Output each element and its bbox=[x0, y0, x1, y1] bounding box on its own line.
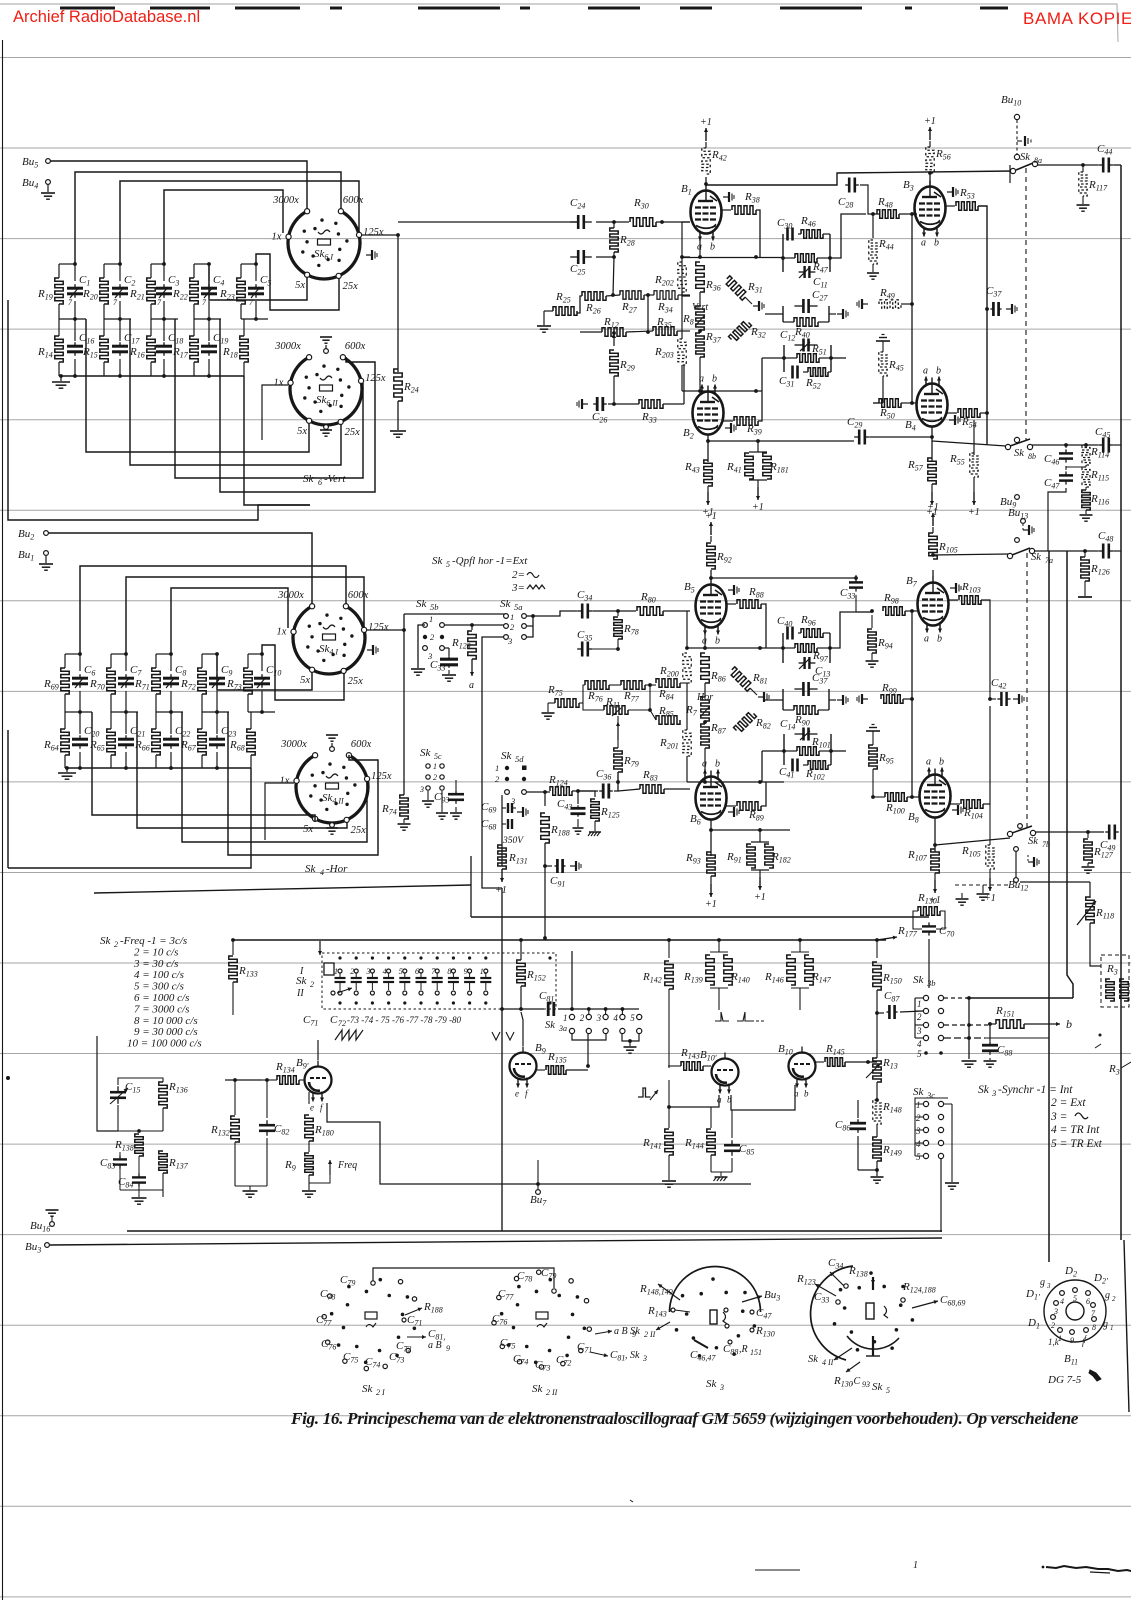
wire R31 to glyph bbox=[745, 297, 752, 304]
capacitor C49 bbox=[1105, 831, 1109, 833]
wire B8 anode to SK7b bbox=[935, 838, 1010, 845]
resistor R7 bbox=[701, 697, 709, 721]
svg-text:3: 3 bbox=[991, 1088, 996, 1098]
resistor R39 bbox=[723, 420, 733, 422]
resistor R102 bbox=[808, 761, 828, 769]
resistor R97 bbox=[795, 644, 817, 652]
resistor R22 bbox=[190, 278, 198, 304]
svg-text:600x: 600x bbox=[348, 590, 369, 601]
switch SK2 dashed box bbox=[322, 953, 556, 1009]
node bus under B2 bbox=[681, 365, 683, 391]
svg-text:Sk: Sk bbox=[1014, 448, 1024, 459]
svg-text:a: a bbox=[702, 759, 707, 770]
svg-text:3a: 3a bbox=[558, 1024, 567, 1033]
left page border line bbox=[2, 40, 4, 1600]
svg-text:5x: 5x bbox=[303, 824, 313, 835]
ground top right of bus bbox=[961, 893, 963, 898]
svg-text:2: 2 bbox=[350, 967, 354, 976]
svg-text:1x: 1x bbox=[274, 378, 284, 389]
svg-text:1: 1 bbox=[917, 999, 922, 1009]
wire B5 anode bus bbox=[711, 577, 790, 579]
wires SK5b bracket bbox=[418, 625, 425, 668]
wire right box bbox=[1110, 1001, 1121, 1020]
resistor R152 bbox=[520, 940, 522, 960]
svg-text:25x: 25x bbox=[348, 676, 364, 687]
+1 R55 bbox=[973, 492, 975, 505]
wires R75 row bbox=[579, 702, 583, 704]
wire SK5a row2 to SK5b bbox=[444, 624, 504, 626]
top edge dark dashes bbox=[60, 7, 115, 10]
svg-text:3000x: 3000x bbox=[272, 195, 299, 206]
svg-text:Sk: Sk bbox=[913, 1086, 925, 1098]
svg-text:8a: 8a bbox=[1034, 156, 1042, 165]
svg-text:a: a bbox=[921, 238, 926, 249]
svg-text:93: 93 bbox=[862, 1380, 870, 1389]
triode B10 bbox=[789, 1053, 816, 1080]
resistor R118 variable bbox=[1020, 881, 1090, 883]
wire SK8a to C44 bbox=[1037, 164, 1098, 166]
svg-text:3: 3 bbox=[916, 1026, 922, 1036]
wire C24 to R30 bbox=[596, 221, 629, 223]
wire R123 to a bbox=[471, 659, 473, 676]
connector SK2-I bbox=[413, 1326, 417, 1330]
dashes SK3b rows bbox=[944, 997, 966, 999]
svg-text:9: 9 bbox=[446, 1344, 450, 1353]
svg-text:1x: 1x bbox=[272, 232, 282, 243]
svg-text:Sk: Sk bbox=[501, 750, 513, 762]
capacitor C16 bbox=[74, 342, 76, 346]
svg-text:125x: 125x bbox=[363, 227, 384, 238]
resistor R89 bbox=[726, 805, 736, 807]
svg-text:DG 7-5: DG 7-5 bbox=[1047, 1374, 1082, 1386]
resistor R76 bbox=[585, 681, 609, 689]
capacitor C2 bbox=[119, 284, 121, 288]
wire ladder3 cell bus bbox=[202, 711, 229, 713]
wire B2 anode to C29 bbox=[708, 440, 854, 442]
resistor R44 bbox=[872, 214, 874, 238]
capacitor C47 bbox=[1065, 466, 1067, 470]
ground R74 bbox=[403, 819, 405, 823]
connector DG 7-5 bbox=[1044, 1280, 1106, 1342]
resistor R116 bbox=[1082, 490, 1090, 510]
svg-text:7 = 3000 c/s: 7 = 3000 c/s bbox=[134, 1003, 189, 1015]
resistor R23 bbox=[237, 278, 245, 304]
svg-text:7b: 7b bbox=[1042, 840, 1050, 849]
+1 feed B1 bbox=[705, 142, 707, 148]
capacitor C40 bbox=[787, 632, 788, 634]
capacitor C3 bbox=[163, 284, 165, 288]
svg-text:5: 5 bbox=[399, 967, 403, 976]
resistor R115 bbox=[1082, 467, 1090, 487]
resistor R105b bbox=[989, 804, 991, 845]
resistor R12 bbox=[602, 328, 626, 336]
resistor R88 bbox=[726, 603, 736, 605]
resistor R35 bbox=[653, 327, 677, 335]
glyph B8 bbox=[952, 809, 958, 811]
resistor R37 bbox=[696, 333, 704, 357]
capacitor C8 bbox=[170, 674, 172, 678]
vertical bus x1067 bbox=[1067, 551, 1073, 998]
switch SK7b bbox=[1018, 824, 1023, 829]
wire C34 to R80 bbox=[593, 610, 636, 612]
capacitor C13 bbox=[799, 662, 805, 664]
wire B7 anode to SK7a bbox=[933, 548, 1006, 555]
wire C44 right to vertical bus bbox=[1114, 164, 1121, 166]
svg-text:5d: 5d bbox=[515, 754, 524, 764]
svg-text:1: 1 bbox=[433, 762, 437, 771]
svg-text:Sk: Sk bbox=[706, 1378, 718, 1390]
wire SK6-I output right bbox=[362, 234, 398, 236]
wire C28 to B3 grid bbox=[860, 185, 880, 214]
wire row4 right bbox=[985, 1037, 1049, 1039]
glyph at SK6-I right bbox=[366, 254, 372, 256]
+1 R41 bbox=[757, 487, 759, 500]
resistor R90 bbox=[794, 706, 818, 714]
wire bundle SK4-II bbox=[92, 712, 315, 822]
svg-text:Freq: Freq bbox=[337, 1160, 357, 1171]
svg-text:3 =: 3 = bbox=[1050, 1111, 1067, 1123]
resistor R201 (dashed) bbox=[683, 730, 691, 756]
tube B3 bbox=[915, 187, 946, 230]
svg-text:b: b bbox=[939, 757, 944, 768]
resistor R33 bbox=[608, 403, 639, 405]
svg-text:3: 3 bbox=[365, 967, 370, 976]
resistor pair R139 R140 bbox=[718, 940, 720, 952]
resistor R95 bbox=[866, 730, 880, 732]
wire R25 to R26 corner bbox=[577, 296, 582, 313]
capacitor C31 bbox=[792, 371, 793, 373]
svg-text:3: 3 bbox=[719, 1383, 724, 1392]
capacitor C18 bbox=[163, 342, 165, 346]
capacitor C88 bbox=[989, 1024, 991, 1041]
resistor R148 bbox=[873, 1100, 881, 1124]
resistor R86 bbox=[701, 653, 709, 683]
svg-text:3=: 3= bbox=[511, 582, 525, 594]
resistor R28 bbox=[613, 252, 615, 257]
+1 R57 bbox=[931, 492, 933, 505]
ground R24 bbox=[397, 401, 399, 430]
svg-text:+1: +1 bbox=[754, 892, 766, 903]
resistor R27 bbox=[620, 291, 644, 299]
+1 R131 bbox=[501, 869, 503, 882]
wire B3 anode right bus bbox=[1009, 165, 1011, 183]
svg-text:2 = Ext: 2 = Ext bbox=[1051, 1097, 1086, 1109]
wire B7 top bbox=[932, 570, 934, 577]
svg-text:6: 6 bbox=[318, 478, 322, 487]
capacitor C29 bbox=[854, 436, 859, 438]
svg-text:8: 8 bbox=[1092, 1323, 1096, 1332]
resistor R203 (dashed) bbox=[678, 339, 686, 365]
capacitor C34 bbox=[577, 610, 582, 612]
svg-text:b: b bbox=[937, 634, 942, 645]
wire SK4-I 125x to rail bbox=[367, 629, 404, 631]
svg-text:3000x: 3000x bbox=[280, 739, 307, 750]
resistor R13 bbox=[873, 1058, 881, 1082]
resistor R47 bbox=[795, 254, 817, 262]
resistor R57 bbox=[928, 458, 936, 484]
resistor R65 bbox=[107, 729, 115, 755]
grounds SK5c bbox=[427, 791, 429, 800]
capacitor C14 bbox=[795, 733, 804, 735]
ground R132 C82 bbox=[235, 1185, 267, 1187]
ground R144 C85 bbox=[711, 1171, 732, 1173]
+1 R93 bbox=[710, 884, 712, 897]
resistor R105 top bbox=[932, 560, 934, 570]
svg-text:4 II: 4 II bbox=[822, 1358, 834, 1367]
wire B9' cathode to B9 line bbox=[327, 1103, 751, 1184]
wire B1 anode top bbox=[705, 177, 707, 185]
svg-text:1: 1 bbox=[913, 1560, 918, 1571]
wire SK3a to B10 grid bbox=[588, 1065, 668, 1067]
wire box1 right up to B3 grid bbox=[830, 214, 866, 258]
small rect SK2 left bbox=[324, 963, 334, 975]
dashed gnd under Bu12 bbox=[955, 884, 1010, 886]
resistor R142 bbox=[668, 940, 670, 958]
svg-text:a: a bbox=[926, 757, 931, 768]
resistor R94 bbox=[871, 615, 873, 628]
resistor R200 (dashed) bbox=[683, 653, 691, 683]
glyph B7 bbox=[950, 587, 956, 589]
resistor R143 bbox=[681, 1062, 703, 1070]
resistor pair R146 R147 bbox=[799, 940, 801, 952]
wire SK6-II 1x left bbox=[262, 385, 288, 440]
resistor R126 bbox=[1084, 551, 1086, 557]
wire ladder3 cell bus bbox=[65, 711, 92, 713]
svg-text:Sk: Sk bbox=[630, 1326, 640, 1337]
resistor R131 bbox=[498, 845, 506, 869]
svg-text:8b: 8b bbox=[1028, 452, 1036, 461]
wire SK3c bottom bbox=[940, 1159, 942, 1232]
capacitor C15 bbox=[117, 1086, 119, 1092]
connector SK2-II bbox=[583, 1326, 587, 1330]
vertical bus x1049 bbox=[1048, 551, 1050, 1262]
svg-text:b: b bbox=[712, 374, 717, 385]
svg-text:b: b bbox=[710, 242, 715, 253]
resistor R100 bbox=[885, 793, 907, 801]
svg-text:5: 5 bbox=[917, 1049, 922, 1059]
svg-text:Sk: Sk bbox=[420, 747, 432, 759]
svg-text:4 = TR Int: 4 = TR Int bbox=[1051, 1124, 1100, 1136]
capacitor C33b bbox=[855, 578, 857, 582]
glyph B4 bbox=[949, 419, 955, 421]
svg-text:6: 6 bbox=[1086, 1297, 1090, 1306]
arrow to b bbox=[1024, 1023, 1060, 1025]
wire C33b down to R94 bbox=[855, 595, 857, 612]
svg-text:b: b bbox=[936, 366, 941, 377]
svg-text:Sk: Sk bbox=[305, 863, 317, 875]
capacitor C25 bbox=[570, 256, 578, 258]
small marks right edge bbox=[1099, 1034, 1102, 1037]
+1 feed B5 bbox=[710, 536, 712, 542]
svg-text:3: 3 bbox=[915, 1126, 921, 1136]
capacitor C28 bbox=[845, 184, 849, 186]
+1 feed B3 bbox=[929, 141, 931, 147]
labels SK3 conn bbox=[658, 1284, 680, 1300]
capacitor C82 bbox=[266, 1080, 268, 1118]
glyph at SK4-I right bbox=[367, 649, 373, 651]
wire R104 right bbox=[983, 706, 990, 804]
svg-text:Sk: Sk bbox=[978, 1084, 990, 1096]
svg-text:6 = 1000 c/s: 6 = 1000 c/s bbox=[134, 992, 189, 1004]
resistor R93 bbox=[707, 852, 715, 876]
wire mid junction bbox=[681, 292, 683, 339]
svg-text:1: 1 bbox=[563, 1013, 568, 1023]
wave glyphs near B9 bbox=[492, 1032, 514, 1040]
svg-text:Sk: Sk bbox=[303, 473, 315, 485]
wire bundle SK6-II bbox=[86, 319, 309, 452]
resistor R144 bbox=[710, 1107, 712, 1128]
wire box2 left stub bbox=[765, 699, 783, 701]
capacitor to ground Bu10 bbox=[1017, 140, 1022, 142]
wire ladder1 bottom bus bbox=[59, 375, 244, 377]
svg-text:3b: 3b bbox=[926, 978, 936, 988]
svg-text:a: a bbox=[924, 634, 929, 645]
svg-text:b: b bbox=[934, 238, 939, 249]
capacitor C11 bbox=[799, 271, 805, 273]
svg-text:C: C bbox=[330, 1014, 338, 1026]
capacitor C22 bbox=[170, 735, 172, 739]
svg-text:-Qpfl hor -1=Ext: -Qpfl hor -1=Ext bbox=[452, 555, 528, 567]
capacitor C84 bbox=[138, 1173, 140, 1177]
svg-text:1,k: 1,k bbox=[1048, 1337, 1060, 1347]
resistor R135 bbox=[537, 1069, 545, 1071]
capacitor C85 bbox=[731, 1110, 733, 1138]
resistor pair R41 R181 bbox=[757, 441, 759, 452]
resistor R53 bbox=[945, 205, 955, 207]
capacitor C20 bbox=[79, 735, 81, 739]
coupling box3 top outline bbox=[783, 345, 785, 372]
block wires C15 top bbox=[118, 1078, 163, 1085]
wire grid row bbox=[606, 295, 620, 296]
capacitor C42 bbox=[989, 692, 991, 699]
wire B2 bottom bbox=[707, 435, 709, 462]
svg-text:+1: +1 bbox=[700, 117, 712, 128]
switch SK7a bbox=[1015, 538, 1020, 543]
svg-text:600x: 600x bbox=[345, 341, 366, 352]
+1 R107 bbox=[934, 880, 936, 893]
wire R144 top bbox=[669, 1106, 711, 1108]
svg-text:Sk: Sk bbox=[100, 935, 112, 947]
capacitor C87 bbox=[877, 1012, 884, 1014]
wire SK3b vertical to ground bbox=[968, 998, 970, 1059]
svg-text:Sk: Sk bbox=[1020, 152, 1030, 163]
resistor R137 bbox=[159, 1151, 167, 1173]
tube B4 bbox=[917, 384, 948, 427]
svg-text:2: 2 bbox=[1112, 1295, 1116, 1303]
svg-text:4: 4 bbox=[916, 1139, 921, 1149]
svg-text:3: 3 bbox=[507, 636, 512, 646]
wire long vertical x502 bbox=[501, 888, 503, 1231]
capacitor C69 bbox=[501, 795, 503, 866]
wire slanted long bus bbox=[94, 885, 471, 893]
svg-text:-73 -74 - 75 -76 -77 -78 -79 -: -73 -74 - 75 -76 -77 -78 -79 -80 bbox=[347, 1015, 461, 1025]
resistor R19 bbox=[55, 278, 63, 304]
svg-text:2 I: 2 I bbox=[376, 1388, 385, 1397]
svg-text:4: 4 bbox=[1060, 1297, 1064, 1306]
wire ladder4 bottom bus bbox=[65, 767, 251, 769]
top page border line bbox=[0, 4, 1118, 42]
resistor R24 bbox=[397, 236, 399, 372]
svg-text:1: 1 bbox=[495, 763, 499, 773]
ground R116 bbox=[1085, 510, 1087, 514]
wire SK7a right to C48 bbox=[1034, 550, 1098, 552]
wires mid B5-B6 bbox=[686, 683, 688, 730]
resistor R107 bbox=[931, 849, 939, 873]
svg-text:9: 9 bbox=[464, 967, 468, 976]
svg-text:+1: +1 bbox=[495, 885, 507, 896]
svg-text:3 = 30 c/s: 3 = 30 c/s bbox=[133, 958, 178, 970]
svg-text:b: b bbox=[715, 636, 720, 647]
wire bus y940 bbox=[232, 939, 886, 941]
sawtooth glyph bbox=[335, 1030, 363, 1040]
svg-text:+1: +1 bbox=[968, 507, 980, 518]
switch SK8a bbox=[1014, 154, 1019, 159]
resistor R46 bbox=[801, 230, 823, 238]
svg-text:3: 3 bbox=[642, 1354, 647, 1363]
capacitor C81 feed bbox=[502, 1008, 544, 1010]
vertical bus right x1121 bbox=[1120, 165, 1122, 1240]
resistor R73 bbox=[244, 668, 252, 694]
coupling box1 outline bbox=[782, 633, 784, 663]
tube B1 bbox=[691, 191, 722, 234]
wire SK4-II 1x left bbox=[265, 783, 294, 840]
wire ladder3 cell bus bbox=[156, 711, 183, 713]
rotary switch SK6-I bbox=[288, 211, 360, 279]
coupling box2 top outline bbox=[782, 306, 784, 322]
ground C15 block bbox=[119, 1168, 121, 1190]
wire SK8b right bbox=[1032, 444, 1098, 446]
resistor R44 body bbox=[869, 240, 877, 264]
svg-text:3: 3 bbox=[419, 785, 424, 794]
svg-text:b: b bbox=[715, 759, 720, 770]
resistor R84 bbox=[656, 679, 680, 687]
svg-text:+1: +1 bbox=[705, 511, 717, 522]
svg-text:2: 2 bbox=[310, 980, 314, 989]
resistor R69 bbox=[61, 668, 69, 694]
resistor R134 bbox=[277, 1076, 299, 1084]
resistor R127 bbox=[1087, 832, 1089, 838]
capacitor C7 bbox=[125, 674, 127, 678]
svg-text:2: 2 bbox=[433, 773, 437, 782]
capacitor C26 bbox=[582, 403, 588, 405]
svg-text:2: 2 bbox=[114, 940, 118, 949]
resistor R99 bbox=[862, 698, 868, 700]
svg-text:Sk: Sk bbox=[296, 975, 308, 987]
svg-text:BAMA KOPIE: BAMA KOPIE bbox=[1023, 9, 1131, 28]
resistor R149 bbox=[873, 1137, 881, 1161]
resistor R136 bbox=[159, 1082, 167, 1108]
svg-text:125x: 125x bbox=[371, 771, 392, 782]
wire R38 feedback loop bbox=[756, 210, 760, 257]
ground ladder1 bbox=[59, 374, 63, 378]
capacitor C44 bbox=[1098, 164, 1103, 166]
svg-text:5x: 5x bbox=[300, 675, 310, 686]
faint ruled lines bbox=[0, 57, 1131, 59]
resistor R80 bbox=[637, 607, 663, 615]
resistor R78 bbox=[617, 611, 619, 616]
resistor R72 bbox=[198, 668, 206, 694]
resistor R29 bbox=[613, 334, 615, 346]
resistor R54 bbox=[947, 412, 957, 414]
capacitor C35 bbox=[577, 648, 582, 650]
wire B1 anode to C28 and SK8a bus bbox=[706, 171, 1013, 185]
tube B6 bbox=[696, 777, 727, 820]
wire Bu3 long bbox=[50, 1238, 943, 1245]
glyph box2 top right bbox=[829, 313, 836, 315]
resistor R38 bbox=[721, 209, 731, 211]
+1 R91 bbox=[759, 877, 761, 890]
glyph cap-gnd Bu13 bbox=[1022, 524, 1024, 530]
